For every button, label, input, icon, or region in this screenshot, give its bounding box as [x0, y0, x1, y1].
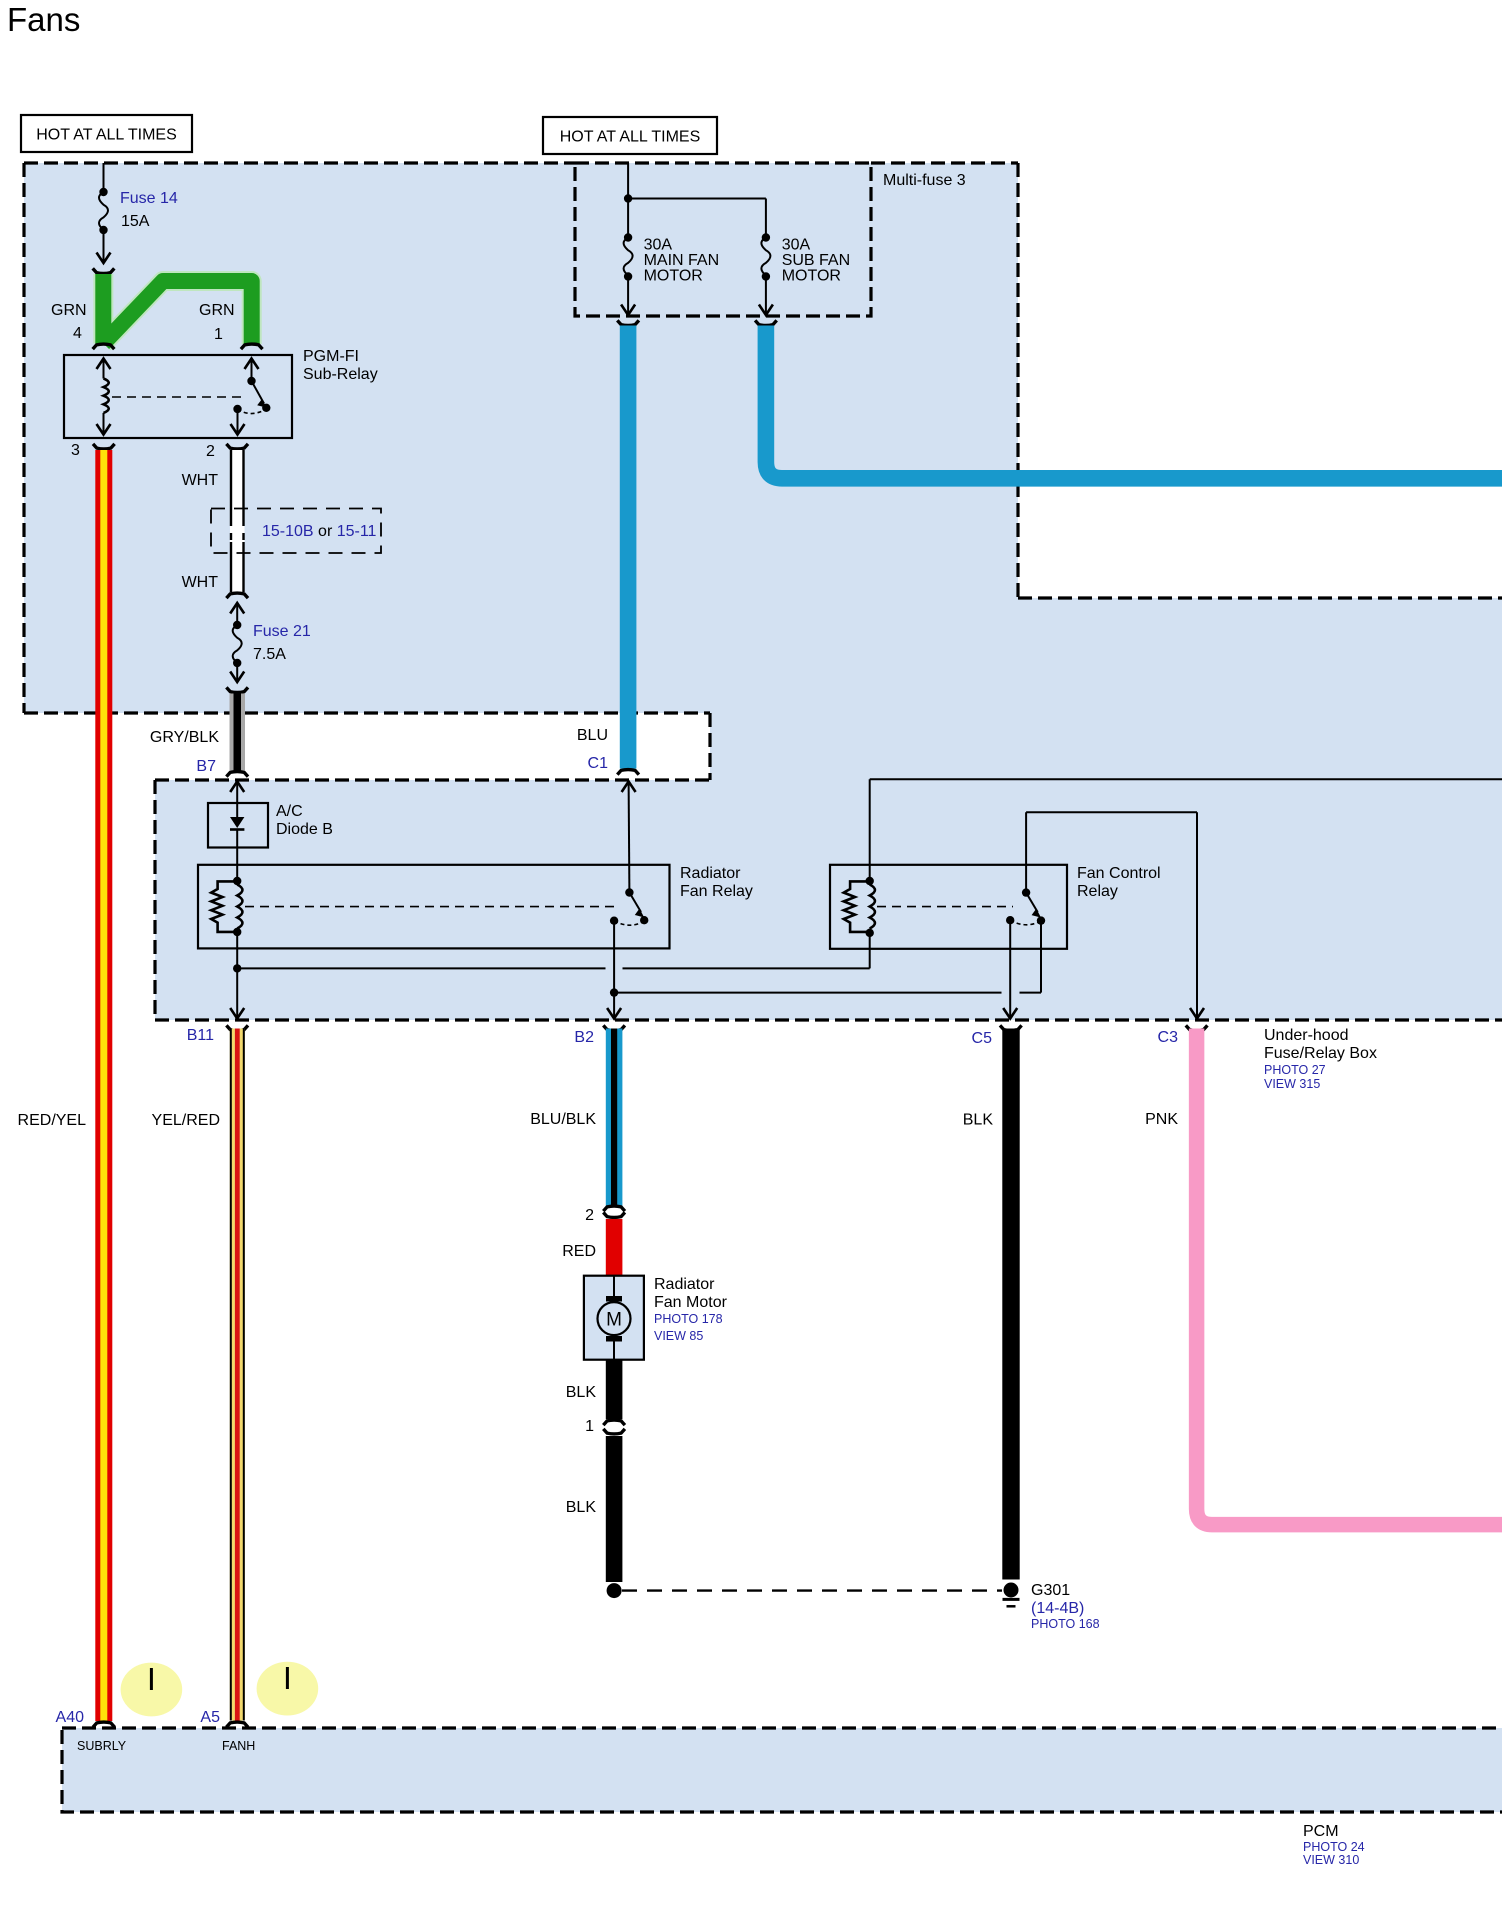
- arrow from radiator fan relay up to C1: [622, 782, 636, 893]
- svg-text:7.5A: 7.5A: [253, 646, 286, 663]
- terminal top of PNK wire: [1186, 1025, 1208, 1030]
- Fan Control Relay coil and resistor: [844, 877, 875, 937]
- wire from box top to fuse 14: [103, 163, 105, 192]
- wire horizontal coil-common link y968: [237, 933, 870, 969]
- svg-text:YEL/RED: YEL/RED: [152, 1112, 220, 1129]
- terminal top of C5 BLK wire: [1000, 1025, 1022, 1030]
- svg-text:M: M: [606, 1310, 622, 1331]
- terminal at top of RED/YEL wire: [93, 444, 115, 449]
- relay PGM-FI Sub-Relay box: [64, 355, 292, 438]
- wire WHT upper segment: [230, 450, 245, 592]
- terminal at top of GRY/BLK wire: [226, 687, 248, 692]
- terminal below main fan fuse: [617, 320, 639, 325]
- wire FCR common up and over to C3: [1026, 812, 1204, 1018]
- terminal bottom of BLU/BLK wire: [603, 1206, 625, 1211]
- svg-text:FANH: FANH: [222, 1739, 255, 1753]
- Fan Control Relay switch: [1006, 888, 1045, 924]
- svg-text:Fan Relay: Fan Relay: [680, 883, 753, 900]
- svg-text:Diode B: Diode B: [276, 821, 333, 838]
- dashed ground link to G301: [622, 1589, 1002, 1591]
- fuse 30A SUB FAN MOTOR: [759, 199, 773, 316]
- PCM dashed box: [62, 1728, 1502, 1812]
- terminal at bottom of WHT wire: [226, 593, 248, 598]
- svg-text:1: 1: [585, 1418, 594, 1435]
- svg-text:C5: C5: [972, 1030, 993, 1047]
- svg-text:C3: C3: [1158, 1029, 1179, 1046]
- svg-text:BLU: BLU: [577, 727, 608, 744]
- wire FCR contact down to C5: [1003, 920, 1017, 1018]
- svg-text:1: 1: [214, 326, 223, 343]
- terminal at top of GRN wire: [93, 268, 115, 273]
- terminal top of YEL/RED wire: [226, 1025, 248, 1030]
- terminal at bottom left of GRN wire: [93, 344, 115, 349]
- svg-text:PGM-FI: PGM-FI: [303, 348, 359, 365]
- svg-text:PHOTO 168: PHOTO 168: [1031, 1617, 1100, 1631]
- svg-text:GRY/BLK: GRY/BLK: [150, 729, 219, 746]
- svg-text:PHOTO 24: PHOTO 24: [1303, 1840, 1365, 1854]
- svg-text:BLK: BLK: [566, 1499, 597, 1516]
- svg-text:HOT AT ALL TIMES: HOT AT ALL TIMES: [560, 129, 701, 146]
- svg-text:A5: A5: [200, 1709, 220, 1726]
- terminal at bottom right of GRN wire: [241, 344, 263, 349]
- fuse 30A MAIN FAN MOTOR: [621, 199, 635, 316]
- terminal at bottom of BLU wire C1: [617, 770, 639, 775]
- svg-text:C1: C1: [588, 755, 609, 772]
- svg-text:2: 2: [585, 1207, 594, 1224]
- option balloon 1: [121, 1663, 183, 1717]
- svg-text:Radiator: Radiator: [654, 1276, 715, 1293]
- Fan Control Relay dashed actuate link: [877, 906, 1013, 908]
- splice node motor ground: [607, 1583, 622, 1598]
- svg-text:VIEW 85: VIEW 85: [654, 1329, 703, 1343]
- multi-fuse 3 dashed box: [575, 163, 871, 316]
- junction node multifuse: [624, 194, 632, 202]
- svg-text:BLK: BLK: [566, 1384, 597, 1401]
- wire BLK to ground splice: [606, 1436, 623, 1582]
- terminal top of RED wire: [603, 1212, 625, 1217]
- svg-text:B2: B2: [574, 1029, 594, 1046]
- svg-text:WHT: WHT: [182, 472, 219, 489]
- svg-text:G301: G301: [1031, 1582, 1070, 1599]
- A/C Diode B box: [208, 803, 268, 848]
- svg-text:Fans: Fans: [7, 1, 80, 38]
- svg-text:VIEW 315: VIEW 315: [1264, 1077, 1320, 1091]
- svg-text:Fan Control: Fan Control: [1077, 865, 1161, 882]
- svg-text:15A: 15A: [121, 213, 150, 230]
- svg-text:A/C: A/C: [276, 803, 303, 820]
- arrow into relay box from B7: [230, 782, 244, 804]
- Radiator Fan Relay coil and resistor: [211, 877, 242, 936]
- svg-text:2: 2: [206, 443, 215, 460]
- under-hood fuse/relay box fill (lower relay section): [155, 780, 1502, 1020]
- PGM-FI relay switch: [231, 359, 271, 435]
- svg-text:Relay: Relay: [1077, 883, 1118, 900]
- svg-text:HOT AT ALL TIMES: HOT AT ALL TIMES: [36, 127, 177, 144]
- wire PNK (C3, bends right off page): [1197, 1029, 1502, 1525]
- wire GRN (thick green): [103, 274, 251, 344]
- svg-text:Multi-fuse 3: Multi-fuse 3: [883, 172, 966, 189]
- terminal at bottom of GRY/BLK wire: [226, 772, 248, 777]
- under-hood fuse/relay box dashed outline: [24, 163, 1502, 1020]
- wire RED (motor feed): [606, 1219, 623, 1276]
- wire BLU (sub fan, bends right off page): [766, 326, 1502, 479]
- wire top feed line y779 to fan control relay coil: [870, 779, 1502, 880]
- PGM-FI relay dashed actuate link: [112, 396, 243, 398]
- svg-text:Under-hood: Under-hood: [1264, 1027, 1349, 1044]
- terminal bottom of motor BLK: [603, 1420, 625, 1425]
- svg-text:B7: B7: [196, 758, 216, 775]
- ground G301: [1003, 1583, 1020, 1607]
- terminal at bottom of RED/YEL wire: [93, 1722, 115, 1727]
- under-hood fuse/relay box fill (right extension): [1018, 598, 1502, 713]
- fuse 21: [230, 603, 244, 682]
- option balloon 2: [257, 1662, 319, 1716]
- wire coil common line to B11: [230, 932, 244, 1019]
- svg-text:PCM: PCM: [1303, 1823, 1339, 1840]
- Radiator Fan Relay switch: [610, 888, 649, 925]
- motor Radiator Fan Motor box: [584, 1276, 644, 1360]
- svg-text:VIEW 310: VIEW 310: [1303, 1853, 1359, 1867]
- svg-text:A40: A40: [56, 1709, 85, 1726]
- svg-text:PHOTO 27: PHOTO 27: [1264, 1063, 1326, 1077]
- svg-text:Sub-Relay: Sub-Relay: [303, 366, 378, 383]
- svg-text:(14-4B): (14-4B): [1031, 1600, 1084, 1617]
- connector 15-10B or 15-11 dashed box: [211, 509, 381, 554]
- svg-text:BLU/BLK: BLU/BLK: [530, 1111, 596, 1128]
- under-hood fuse/relay box fill (middle band right of notch): [710, 713, 1502, 780]
- svg-text:PNK: PNK: [1145, 1111, 1178, 1128]
- svg-text:SUBRLY: SUBRLY: [77, 1739, 127, 1753]
- svg-text:GRN: GRN: [51, 302, 87, 319]
- PGM-FI relay coil pin arrows and coil: [97, 359, 111, 435]
- svg-text:B11: B11: [187, 1027, 214, 1044]
- svg-text:Fuse 21: Fuse 21: [253, 623, 311, 640]
- terminal bottom of YEL/RED wire: [226, 1722, 248, 1727]
- wire from RFR switch down to B2: [607, 921, 621, 1019]
- svg-text:Fuse/Relay Box: Fuse/Relay Box: [1264, 1045, 1377, 1062]
- svg-text:BLK: BLK: [963, 1112, 994, 1129]
- wire junction to sub fan fuse: [628, 198, 766, 200]
- wire YEL/RED (A5): [230, 1029, 245, 1721]
- svg-text:Fan Motor: Fan Motor: [654, 1294, 728, 1311]
- svg-text:15-10B or 15-11: 15-10B or 15-11: [262, 523, 377, 540]
- wire BLU/BLK (B2 drop): [606, 1029, 623, 1207]
- HOT AT ALL TIMES box 1: [21, 115, 192, 152]
- svg-text:Radiator: Radiator: [680, 865, 741, 882]
- wire BLK (C5 to ground): [1002, 1029, 1019, 1580]
- terminal below sub fan fuse: [755, 320, 777, 325]
- svg-text:RED: RED: [562, 1243, 596, 1260]
- PCM box fill: [62, 1728, 1502, 1812]
- wire RED/YEL (A40): [95, 450, 112, 1721]
- svg-text:Fuse 14: Fuse 14: [120, 190, 178, 207]
- relay Fan Control Relay box: [830, 865, 1067, 949]
- wire from diode to radiator fan relay coil: [236, 848, 238, 883]
- fuse 14: [97, 188, 111, 263]
- svg-text:3: 3: [71, 442, 80, 459]
- terminal top of ground BLK: [603, 1429, 625, 1434]
- terminal at top of WHT wire: [226, 444, 248, 449]
- wire GRY/BLK (B7): [230, 694, 246, 771]
- wire from multifuse top to junction: [627, 163, 629, 199]
- wire BLU (C1 drop): [620, 326, 637, 769]
- Radiator Fan Relay dashed actuate link: [245, 906, 616, 908]
- wire horizontal link y992 from B2 to fan control relay contact: [614, 921, 1041, 993]
- svg-text:PHOTO 178: PHOTO 178: [654, 1312, 723, 1326]
- svg-text:GRN: GRN: [199, 302, 235, 319]
- svg-text:WHT: WHT: [182, 574, 219, 591]
- relay Radiator Fan Relay box: [198, 865, 670, 949]
- wire BLK below motor: [606, 1360, 623, 1420]
- svg-text:4: 4: [73, 325, 82, 342]
- HOT AT ALL TIMES box 2: [543, 117, 717, 154]
- terminal top of BLU/BLK wire: [603, 1025, 625, 1030]
- under-hood fuse/relay box fill (upper section): [24, 163, 1018, 713]
- svg-text:RED/YEL: RED/YEL: [18, 1112, 87, 1129]
